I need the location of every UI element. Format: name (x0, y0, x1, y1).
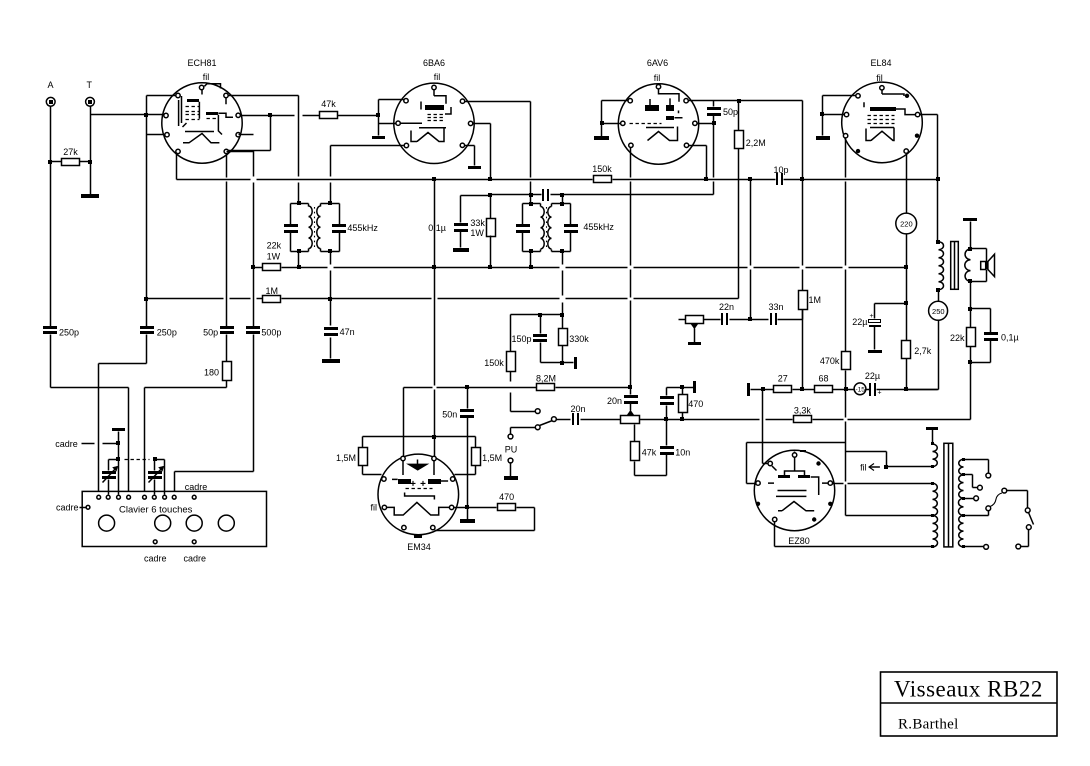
svg-text:EZ80: EZ80 (788, 536, 810, 546)
wire ECH81 pin oscillator column x226.3 with 50p 180 (226, 154, 228, 178)
wire 150p 330k bottoms to ground (541, 362, 574, 364)
mains switch (990, 493, 1002, 507)
secondary tap wires (964, 459, 989, 461)
svg-text:22k: 22k (267, 241, 282, 251)
trimmer capacitor CV1 (109, 459, 119, 461)
speaker ground (963, 218, 977, 221)
wire 6BA6 grid to IF T1 (331, 145, 405, 147)
EL84 pins (880, 86, 884, 90)
svg-text:fil: fil (371, 503, 378, 513)
trimmer coupling dashed (116, 457, 120, 461)
capacitor 47n (330, 299, 332, 326)
6BA6 internals (425, 105, 444, 110)
wire 22u2 filter branch (875, 303, 907, 305)
svg-text:22n: 22n (719, 302, 734, 312)
wire speaker return (970, 282, 972, 309)
wire ECH81 triode grid down-column x146.5 (146, 115, 148, 329)
wire to PU terminal (511, 427, 536, 429)
trimmer capacitor CV2 (155, 459, 165, 461)
svg-text:50n: 50n (442, 410, 457, 420)
cadre antenna bar (112, 428, 125, 431)
svg-text:cadre: cadre (55, 439, 78, 449)
svg-text:Visseaux RB22: Visseaux RB22 (894, 677, 1043, 702)
power transformer secondary winding (962, 458, 965, 461)
svg-text:-15: -15 (855, 386, 865, 393)
svg-text:6BA6: 6BA6 (423, 58, 445, 68)
svg-text:10n: 10n (675, 448, 690, 458)
svg-text:180: 180 (204, 368, 219, 378)
power transformer core (944, 443, 953, 547)
wire EL84 left ground (823, 95, 856, 97)
6AV6 internals (645, 105, 659, 111)
svg-text:27k: 27k (63, 147, 78, 157)
wire 6BA6 grid cluster x378.3 (376, 113, 380, 117)
EM34 internals (408, 464, 428, 470)
IF transformer T1 secondary tank (328, 201, 332, 205)
6AV6 pins (656, 85, 660, 89)
wire EM34 HT riser (434, 180, 436, 386)
wire main HT bus y=179.4 (177, 179, 251, 181)
svg-text:T: T (87, 80, 93, 90)
IF T2 core dashed (546, 207, 548, 250)
svg-text:3,3k: 3,3k (794, 406, 812, 416)
EL84 internals (870, 107, 896, 111)
svg-text:22µ: 22µ (865, 371, 880, 381)
wire IF T2 coupling row y194.9 (529, 193, 533, 197)
wire EZ80 bottom left pin down (774, 522, 776, 547)
svg-text:330k: 330k (569, 334, 589, 344)
svg-text:47k: 47k (642, 448, 657, 458)
tone cap 470 cluster (666, 388, 668, 396)
svg-text:47n: 47n (340, 327, 355, 337)
wire 8,2M row (404, 387, 433, 389)
wire IF T1 secondary cold down to AVC (330, 252, 332, 265)
svg-text:fil: fil (203, 72, 210, 82)
svg-text:1,5M: 1,5M (482, 453, 502, 463)
svg-text:470k: 470k (820, 356, 840, 366)
svg-text:ECH81: ECH81 (187, 58, 216, 68)
svg-text:50p: 50p (203, 328, 218, 338)
wire EL84 screen column with 220 (906, 154, 908, 214)
svg-text:50p: 50p (723, 107, 738, 117)
svg-text:220: 220 (900, 220, 913, 229)
wire 6BA6 cathode to ground (465, 145, 475, 147)
wire ECH81 cathode pin to bus start (176, 154, 178, 180)
circle 220V (896, 213, 917, 234)
svg-text:fil: fil (434, 72, 441, 82)
wire ECH81 triode grid pin to column (147, 134, 166, 136)
svg-text:cadre: cadre (184, 554, 207, 564)
wire bus to 22n row riser x750.3 (748, 177, 752, 181)
svg-text:22k: 22k (950, 333, 965, 343)
svg-text:455kHz: 455kHz (347, 223, 378, 233)
wire 33n to 1M grid resistor (802, 310, 804, 320)
bias row terminal bar (747, 383, 750, 396)
svg-text:Clavier 6 touches: Clavier 6 touches (119, 505, 193, 516)
speaker symbol (981, 262, 986, 270)
wire EL84 plate to OT (920, 114, 938, 116)
wire 500p to keyboard pin (175, 471, 254, 473)
svg-text:20n: 20n (570, 404, 585, 414)
wire 6AV6 plate to bus (689, 145, 707, 147)
svg-text:+: + (870, 313, 874, 320)
svg-text:20n: 20n (607, 396, 622, 406)
6BA6 pins (432, 85, 436, 89)
wire AVC row y298.9 (144, 297, 148, 301)
wire 6AV6 grid column down (630, 148, 632, 178)
svg-text:PU: PU (505, 445, 518, 455)
wire 6AV6 top rail (689, 100, 803, 102)
svg-text:1W: 1W (267, 252, 281, 262)
keyboard Clavier 6 touches box (82, 491, 266, 546)
capacitor series IF2 coupling (542, 189, 544, 201)
potentiometer tone pot2 (679, 319, 686, 321)
svg-text:150k: 150k (592, 164, 612, 174)
wire 6AV6 grid from IF2 via 50p node (713, 124, 715, 178)
ground 50n EM34 (467, 508, 469, 520)
svg-text:cadre: cadre (185, 482, 208, 492)
potentiometer volume (621, 416, 640, 424)
power transformer primary winding (931, 442, 934, 445)
wire padder row y387.2 left (51, 387, 129, 389)
svg-text:A: A (48, 80, 54, 90)
svg-text:6AV6: 6AV6 (647, 58, 668, 68)
wire EM34 grid riser (403, 388, 405, 457)
tube EM34 envelope (378, 454, 459, 535)
svg-text:+: + (878, 390, 882, 397)
svg-text:500p: 500p (261, 328, 281, 338)
svg-text:27: 27 (778, 374, 788, 384)
svg-text:470: 470 (688, 399, 703, 409)
wire ECH81 screen wire y115.3 with 47k (241, 115, 295, 117)
tube EZ80 envelope (754, 450, 834, 530)
svg-text:250p: 250p (157, 328, 177, 338)
svg-text:68: 68 (818, 374, 828, 384)
wire pot row right (640, 419, 667, 421)
ground 47n (322, 359, 340, 363)
ECH81 pins (199, 85, 203, 89)
svg-text:cadre: cadre (144, 554, 167, 564)
wire 6AV6 left ground (602, 100, 629, 102)
wire EM34 heater row with 470 (465, 505, 469, 509)
svg-text:250: 250 (932, 307, 945, 316)
wire IF T2 secondary cold column (562, 252, 564, 265)
wire T to ECH81 grid (91, 114, 165, 116)
wire 6BA6 screen wire (465, 101, 531, 103)
svg-text:33k: 33k (470, 218, 485, 228)
resistor 47k AF (634, 425, 636, 442)
wire plate branch elbow (270, 116, 272, 151)
wire EL84 grid column to EZ80 region (845, 390, 847, 418)
wire rail1 EZ80 top (747, 442, 846, 444)
wire bias dropper column x762.7 (762, 390, 764, 443)
keyboard knobs (99, 515, 115, 531)
svg-text:1M: 1M (809, 295, 822, 305)
wire 6BA6 plate to bus col (473, 123, 491, 125)
wire bias column to EZ80 pin (762, 443, 764, 464)
svg-text:0,1µ: 0,1µ (428, 223, 446, 233)
wire A column down (50, 107, 52, 329)
ground under T (81, 194, 99, 198)
wire 2,2M column lower part (738, 268, 740, 299)
EM34 bottom key mark (414, 534, 422, 538)
wire ECH81 cathode stub (227, 151, 254, 153)
speaker voice coil (968, 247, 972, 251)
wire T column down (90, 107, 92, 195)
IF transformer T2 primary tank (530, 196, 532, 204)
circle 250V (938, 321, 940, 390)
title box Visseaux RB22 (881, 672, 1058, 736)
svg-text:22µ: 22µ (852, 317, 867, 327)
ECH81 internals (187, 99, 199, 102)
IF T1 core dashed (314, 207, 316, 249)
resistor 2,2M (737, 99, 741, 103)
svg-text:1W: 1W (470, 228, 484, 238)
svg-text:150k: 150k (484, 358, 504, 368)
keyboard bottom pins cadre (153, 540, 157, 544)
switch radio/PU contact from 150k (511, 411, 536, 413)
wire x845.6 to transformer tap (846, 515, 933, 517)
svg-text:cadre: cadre (56, 503, 79, 513)
svg-text:33n: 33n (768, 302, 783, 312)
wire detector rail y314.9 (511, 314, 563, 316)
wire 180 to keyboard (144, 388, 146, 495)
svg-text:250p: 250p (59, 328, 79, 338)
svg-text:EL84: EL84 (870, 58, 891, 68)
wire 1M bottom to bias row (802, 310, 804, 320)
svg-text:R.Barthel: R.Barthel (898, 717, 959, 733)
wire EZ80 heater top to fil line (794, 452, 796, 453)
svg-text:fil: fil (654, 73, 661, 83)
EZ80 internals (778, 475, 790, 478)
output transformer primary (936, 240, 940, 244)
IF transformer T1 455kHz primary tank (297, 201, 301, 205)
svg-text:150p: 150p (511, 334, 531, 344)
wire EZ80 plate feed left side (746, 443, 748, 484)
wire screen column x298.8 (229, 95, 299, 97)
EM34 pins (401, 456, 405, 460)
ground 6BA6 grid return (372, 136, 385, 139)
keyboard side pin cadre (86, 505, 90, 509)
wire EZ80 cathode right to transformer (833, 483, 844, 485)
IF transformer T2 secondary tank (562, 195, 564, 204)
wire ECH81 pin1 to column (147, 95, 177, 97)
EZ80 pins (792, 453, 796, 457)
svg-text:1M: 1M (266, 286, 279, 296)
svg-text:EM34: EM34 (407, 542, 431, 552)
svg-text:2,7k: 2,7k (914, 346, 932, 356)
svg-text:8,2M: 8,2M (536, 374, 556, 384)
PU ground terminal (508, 458, 513, 463)
wire ECH81 plate wire down x253.3 (228, 150, 254, 152)
wire 6AV6 plate rail column x802.3 (802, 101, 804, 180)
svg-text:470: 470 (499, 492, 514, 502)
wire detector node y195.1 (488, 193, 492, 197)
wire ECH81 plate pin stub (239, 134, 254, 136)
circle -15V (846, 389, 855, 391)
svg-text:455kHz: 455kHz (583, 222, 614, 232)
wire 250p2 to keyboard (99, 363, 147, 365)
keyboard top pins (97, 495, 101, 499)
svg-text:0,1µ: 0,1µ (1001, 333, 1019, 343)
svg-text:2,2M: 2,2M (746, 138, 766, 148)
svg-text:1,5M: 1,5M (336, 453, 356, 463)
wire EM34 top rail (363, 436, 476, 438)
svg-text:47k: 47k (321, 99, 336, 109)
wire 22k row to EM34 and right (299, 267, 328, 269)
wire feedback to pot row (970, 363, 972, 420)
output transformer core (951, 242, 959, 290)
svg-text:fil: fil (860, 463, 867, 473)
switch blade (540, 421, 553, 426)
power transformer mains bar (926, 427, 938, 430)
